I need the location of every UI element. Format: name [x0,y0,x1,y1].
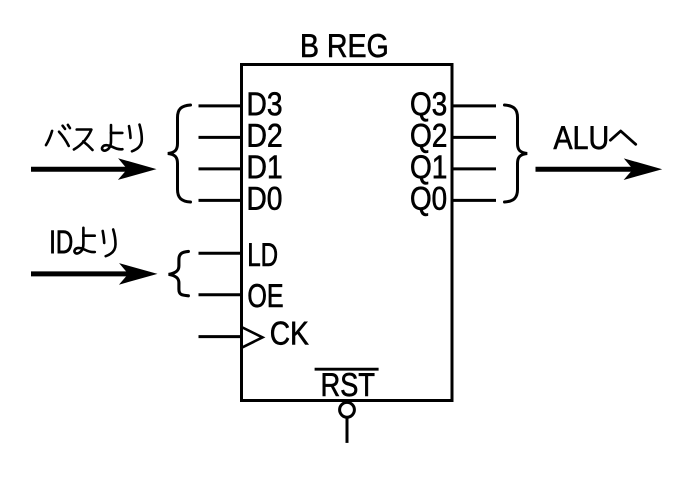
ス diagonal [74,130,91,150]
arrow to ALU [536,167,647,172]
バ dakuten [63,125,70,129]
wire pin LD [199,252,242,255]
label バスより (from bus) [46,125,93,150]
pin label RST [323,373,375,396]
wire pin CK [199,335,242,338]
pin label Q2 [411,124,446,153]
pin label D3 [249,92,281,115]
pin label Q0 [411,187,446,216]
pin label OE [249,284,283,307]
pin label CK [271,321,308,344]
wire pin D3 [199,104,242,107]
ス right leg [83,141,92,150]
よ of バスより [102,125,122,151]
pin label D0 [249,187,281,210]
pin label D2 [249,124,281,147]
label IDより (from ID) [51,231,72,254]
register box U1 (B REG) [242,65,453,401]
RST overline (active-low bar) [315,368,379,371]
pin label LD [249,243,277,266]
clock edge triangle at CK pin [243,328,263,348]
wire pin D1 [199,167,242,170]
arrow from ID [31,271,141,276]
wire pin D2 [199,136,242,139]
wire pin OE [199,293,242,296]
arrow from bus [31,167,140,172]
label ALUへ (to ALU) [554,126,608,149]
よ of IDより [74,228,94,254]
バ left stroke [46,131,52,145]
label B REG [302,34,386,57]
wire pin Q1 [452,167,497,170]
pin label D1 [249,156,281,179]
wire pin Q0 [452,199,497,202]
inverter bubble on RST pin [340,402,355,417]
wire pin Q3 [452,104,497,107]
ス top bar [77,128,92,131]
バ right stroke [59,132,69,146]
wire pin D0 [199,199,242,202]
り of バスより [129,125,142,152]
brace grouping Q3-Q0 [505,105,528,202]
へ stroke [610,131,635,144]
pin label Q1 [411,155,446,184]
pin label Q3 [411,92,446,121]
brace grouping D3-D0 [168,105,191,202]
wire pin Q2 [452,136,497,139]
brace grouping LD-OE [169,251,189,295]
wire RST stub [346,418,349,443]
り of IDより [103,230,116,257]
